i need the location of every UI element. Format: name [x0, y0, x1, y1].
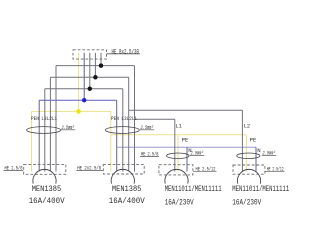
svg-text:N: N — [257, 148, 260, 154]
svg-text:L1: L1 — [175, 123, 182, 129]
svg-text:MEN11011/MEN11111: MEN11011/MEN11111 — [165, 184, 222, 194]
svg-text:16A/400V: 16A/400V — [109, 196, 145, 206]
svg-text:PEN L3L2L1: PEN L3L2L1 — [31, 115, 57, 122]
svg-text:16A/230V: 16A/230V — [165, 198, 194, 208]
svg-text:HE 8x2.5/30: HE 8x2.5/30 — [112, 48, 140, 55]
svg-text:PE: PE — [250, 138, 257, 144]
svg-text:L2: L2 — [244, 123, 251, 129]
svg-text:PEN L3L2L1: PEN L3L2L1 — [111, 115, 137, 122]
svg-text:N: N — [188, 148, 191, 154]
svg-text:16A/400V: 16A/400V — [29, 196, 65, 206]
svg-text:PE: PE — [182, 138, 189, 144]
svg-text:MEN1385: MEN1385 — [112, 185, 142, 194]
svg-text:MEN1385: MEN1385 — [32, 185, 62, 194]
svg-text:MEN11011/MEN11111: MEN11011/MEN11111 — [232, 184, 289, 194]
svg-text:16A/230V: 16A/230V — [232, 198, 261, 208]
